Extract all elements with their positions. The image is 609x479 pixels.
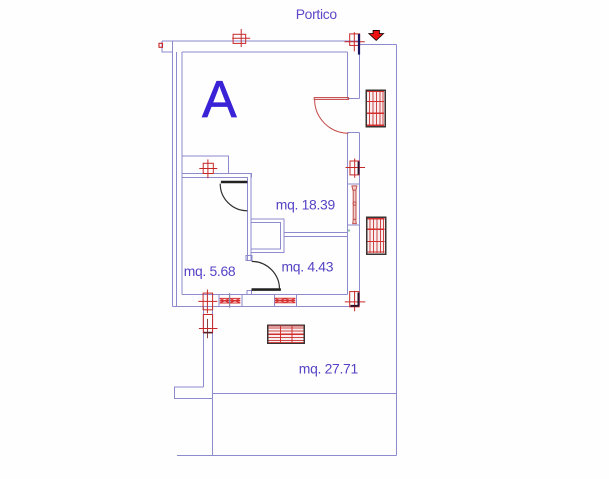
dark pillar top-right (358, 34, 360, 55)
door notch bottom wall (247, 291, 252, 295)
column C2 top-right corner (345, 32, 365, 51)
column B3 below wall (199, 315, 218, 339)
column B2 dark edges (351, 293, 359, 306)
shaft inner box (252, 223, 281, 250)
door D2 black partition (220, 182, 247, 211)
window W1 bottom wall (220, 293, 241, 307)
window jamb 3 (274, 295, 276, 307)
svg-text:mq. 4.43: mq. 4.43 (282, 259, 334, 275)
door D3 black bottom room (252, 261, 281, 289)
portico bottom edge (177, 455, 397, 457)
radiator R2 right lower (367, 217, 386, 254)
portico right edge (396, 45, 398, 456)
wall top outer (162, 40, 360, 42)
door jamb bottom of opening (348, 132, 360, 134)
partition 18.39/4.43 lower (284, 236, 348, 238)
portico left wall outer (212, 307, 214, 456)
wall right inner upper (347, 52, 349, 99)
svg-text:A: A (202, 71, 237, 129)
door jamb top of opening (348, 98, 360, 100)
svg-text:mq. 5.68: mq. 5.68 (184, 263, 236, 279)
svg-text:Portico: Portico (296, 6, 338, 22)
shaft outer box (251, 219, 284, 253)
column B1 bottom wall left (198, 290, 217, 314)
wall bottom inner (182, 294, 348, 296)
closet outline room A (182, 156, 229, 174)
partition 18.39/4.43 upper (284, 232, 348, 234)
flue jamb upper (348, 183, 360, 185)
column M2 right wall (346, 158, 365, 177)
partition upper line (182, 174, 252, 178)
door stub cap (246, 256, 252, 261)
column M2 dark edge (358, 162, 360, 175)
window jamb 2 (241, 295, 243, 307)
partition vertical left line (247, 178, 249, 262)
portico top edge (360, 44, 397, 46)
wall left inner (181, 52, 183, 295)
window jamb 4 (296, 295, 298, 307)
column C1 top wall (232, 29, 250, 47)
svg-text:mq. 18.39: mq. 18.39 (276, 197, 336, 213)
door D1 red right wall (314, 98, 348, 134)
green dot (348, 230, 350, 232)
wall right inner lower (347, 133, 349, 295)
window jamb 1 (218, 295, 220, 307)
wall corner box top-left (162, 41, 173, 52)
flue symbol right wall (352, 186, 357, 224)
radiator R3 portico (268, 325, 305, 343)
flue jamb lower (348, 224, 360, 226)
window W2 bottom wall (275, 298, 296, 303)
radiator R1 right upper (366, 90, 385, 127)
red stub top-left (159, 43, 163, 47)
svg-text:mq. 27.71: mq. 27.71 (299, 361, 359, 377)
wall top inner (182, 51, 348, 53)
portico left wall inner (203, 307, 205, 388)
entrance arrow (369, 31, 384, 41)
wall left middle (176, 52, 178, 307)
wall left outer (172, 41, 174, 307)
portico middle line (213, 393, 397, 395)
column M1 partition (199, 159, 217, 178)
wall right outer lower (359, 133, 361, 307)
partition vertical right line (250, 174, 252, 262)
step lower-left (175, 387, 213, 399)
partition lower line (182, 177, 248, 179)
wall bottom outer (173, 306, 360, 308)
column B2 bottom wall right (345, 291, 366, 312)
wall right outer upper (359, 41, 361, 99)
